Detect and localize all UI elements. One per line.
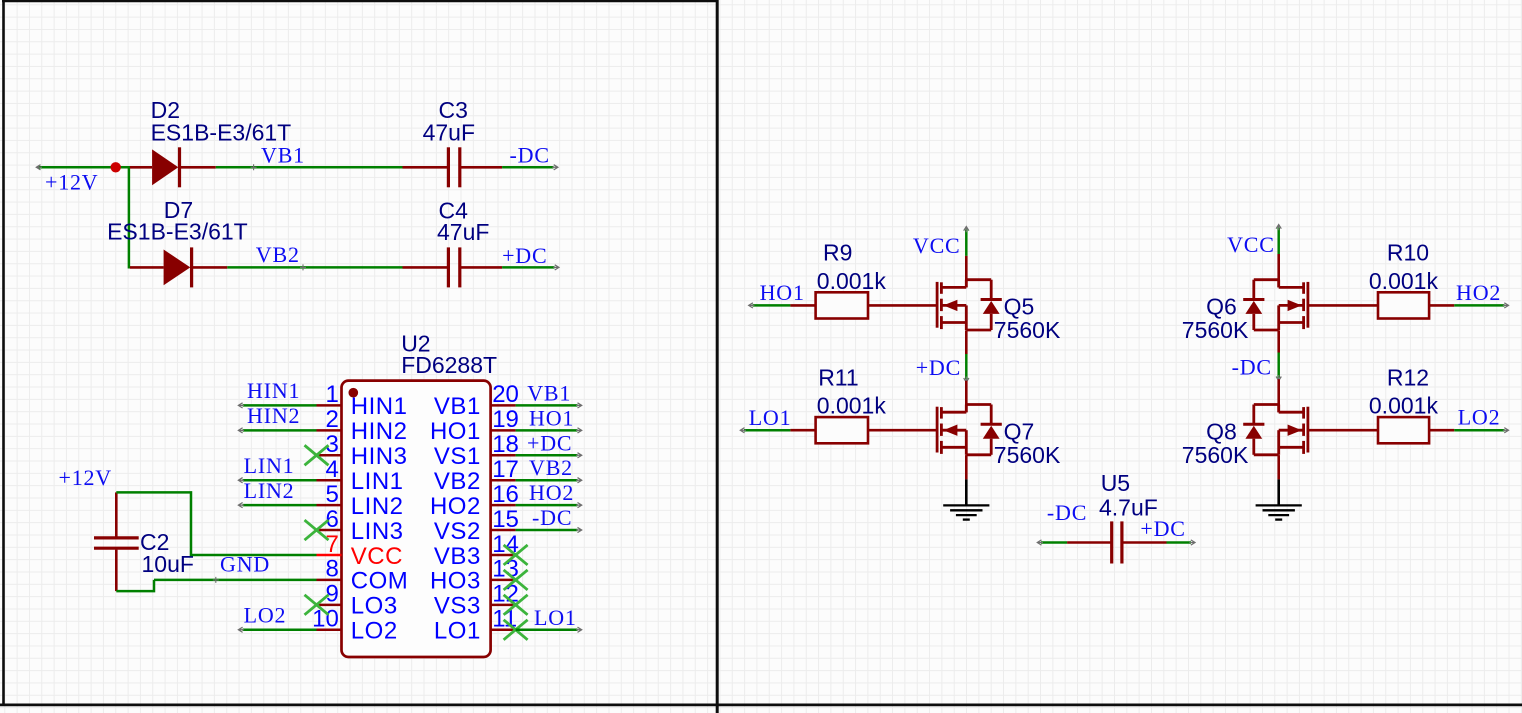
- svg-text:HIN1: HIN1: [351, 393, 408, 420]
- svg-text:HO2: HO2: [430, 493, 481, 520]
- wire net LO2 (right): [1454, 429, 1504, 432]
- svg-text:47uF: 47uF: [437, 219, 489, 245]
- svg-text:VCC: VCC: [1227, 232, 1275, 257]
- wire net HO1 (U2 pin 19): [516, 429, 578, 432]
- svg-text:7560K: 7560K: [994, 442, 1061, 468]
- U2 pin 2 (HIN2) stub: [317, 429, 342, 432]
- transistor Q7 (NMOS): [936, 407, 939, 453]
- svg-text:0.001k: 0.001k: [817, 393, 887, 419]
- power flag VCC (right): [1277, 228, 1280, 255]
- svg-text:Q5: Q5: [1004, 294, 1035, 320]
- wire net +DC (C4 right): [502, 266, 554, 269]
- wire net HIN1: [243, 404, 317, 407]
- svg-text:VB2: VB2: [529, 455, 573, 480]
- svg-text:VCC: VCC: [913, 233, 961, 258]
- svg-text:VB2: VB2: [256, 242, 300, 267]
- svg-text:R10: R10: [1387, 240, 1429, 266]
- no-connect X U2 pin 11: [504, 620, 528, 640]
- IC U2 FD6288T body: [342, 381, 491, 657]
- svg-text:4: 4: [325, 456, 338, 483]
- svg-text:17: 17: [492, 456, 519, 483]
- svg-text:+DC: +DC: [527, 430, 572, 455]
- wire C2 bottom to GND net: [116, 580, 154, 591]
- svg-text:VB1: VB1: [261, 142, 305, 167]
- svg-text:0.001k: 0.001k: [817, 268, 887, 294]
- svg-text:HIN1: HIN1: [247, 378, 300, 403]
- svg-text:+DC: +DC: [916, 355, 961, 380]
- transistor Q8 (NMOS, mirrored): [1307, 407, 1310, 453]
- svg-text:VB2: VB2: [434, 468, 481, 495]
- wire net HIN2: [243, 429, 317, 432]
- svg-text:ES1B-E3/61T: ES1B-E3/61T: [107, 219, 248, 245]
- wire Q6 drain: [1277, 254, 1280, 287]
- wire net -DC (U2 pin 15): [516, 529, 578, 532]
- junction dot +12V node: [111, 162, 121, 172]
- wire +12V branch down to D7: [128, 166, 131, 268]
- svg-text:VB1: VB1: [434, 393, 481, 420]
- U2 pin 10 (LO2) stub: [317, 629, 342, 632]
- svg-text:HO1: HO1: [430, 418, 481, 445]
- wire Q8 source to ground: [1277, 455, 1280, 479]
- svg-text:7560K: 7560K: [1182, 317, 1249, 343]
- wire joint marker VB1: [251, 164, 257, 170]
- svg-text:8: 8: [325, 556, 338, 583]
- svg-text:VS3: VS3: [434, 593, 481, 620]
- wire Q5 source to +DC node: [965, 330, 968, 354]
- capacitor C3: [403, 166, 449, 169]
- svg-text:LIN2: LIN2: [351, 493, 404, 520]
- wire Q7 source to ground: [965, 455, 968, 479]
- U2 pin 3 (HIN3) stub: [317, 454, 342, 457]
- resistor R10: [1308, 304, 1378, 307]
- svg-text:HIN2: HIN2: [247, 403, 300, 428]
- U2 pin 5 (LIN2) stub: [317, 504, 342, 507]
- svg-text:0.001k: 0.001k: [1369, 393, 1439, 419]
- no-connect X U2 pin 6: [305, 520, 329, 540]
- svg-text:7560K: 7560K: [994, 317, 1061, 343]
- U2 pin 17 (VB2) stub: [491, 479, 516, 482]
- svg-text:+12V: +12V: [45, 170, 99, 195]
- svg-text:VS2: VS2: [434, 518, 481, 545]
- svg-text:15: 15: [492, 506, 519, 533]
- svg-text:Q6: Q6: [1206, 294, 1237, 320]
- no-connect X U2 pin 14: [504, 545, 528, 565]
- U2 pin 16 (HO2) stub: [491, 504, 516, 507]
- svg-text:U5: U5: [1101, 470, 1130, 496]
- svg-text:Q8: Q8: [1206, 418, 1237, 444]
- svg-text:19: 19: [492, 406, 519, 433]
- svg-text:HIN3: HIN3: [351, 443, 408, 470]
- diode D2: [130, 166, 152, 169]
- wire C2 top to U2 VCC pin 7: [116, 492, 316, 555]
- wire net HO2 (U2 pin 16): [516, 504, 578, 507]
- wire net LIN1: [243, 479, 317, 482]
- wire net LO2 (U2 pin 10): [243, 629, 317, 632]
- U2 pin 9 (LO3) stub: [317, 604, 342, 607]
- svg-text:VB3: VB3: [434, 543, 481, 570]
- svg-text:LO3: LO3: [351, 593, 398, 620]
- wire net -DC to U5: [1041, 541, 1067, 544]
- wire net HO2: [1454, 304, 1504, 307]
- svg-text:LO2: LO2: [1458, 405, 1501, 430]
- svg-text:16: 16: [492, 481, 519, 508]
- svg-text:20: 20: [492, 381, 519, 408]
- svg-text:HO2: HO2: [1456, 280, 1501, 305]
- svg-text:R9: R9: [823, 240, 852, 266]
- transistor Q5 (NMOS): [936, 282, 939, 328]
- svg-text:+DC: +DC: [502, 243, 547, 268]
- U2 pin 19 (HO1) stub: [491, 429, 516, 432]
- svg-text:LO1: LO1: [749, 405, 792, 430]
- svg-text:LO1: LO1: [534, 605, 577, 630]
- wire Q8 drain: [1277, 379, 1280, 412]
- svg-text:LIN3: LIN3: [351, 518, 404, 545]
- wire net LO1 (U2 pin 11): [516, 629, 578, 632]
- capacitor U5: [1067, 541, 1111, 544]
- wire Q7 drain: [965, 381, 968, 413]
- svg-text:GND: GND: [220, 552, 270, 577]
- svg-text:LO2: LO2: [351, 618, 398, 645]
- wire joint marker VB2: [300, 264, 306, 270]
- U2 pin 14 (VB3) stub: [491, 554, 516, 557]
- resistor R12: [1308, 429, 1378, 432]
- svg-text:5: 5: [325, 481, 338, 508]
- svg-text:10uF: 10uF: [142, 551, 194, 577]
- U2 pin 4 (LIN1) stub: [317, 479, 342, 482]
- pin-1 marker dot U2: [349, 388, 359, 398]
- wire net VB1: [216, 166, 403, 169]
- svg-text:47uF: 47uF: [423, 119, 475, 145]
- U2 pin 1 (HIN1) stub: [317, 404, 342, 407]
- svg-text:FD6288T: FD6288T: [401, 352, 497, 378]
- svg-text:7560K: 7560K: [1182, 442, 1249, 468]
- svg-text:18: 18: [492, 431, 519, 458]
- svg-text:Q7: Q7: [1004, 418, 1035, 444]
- svg-text:7: 7: [325, 531, 338, 558]
- wire net VB2 (U2 pin 17): [516, 479, 578, 482]
- svg-text:-DC: -DC: [1232, 355, 1272, 380]
- svg-text:HO1: HO1: [760, 280, 805, 305]
- no-connect X U2 pin 13: [504, 570, 528, 590]
- wire net -DC (C3 right): [502, 166, 553, 169]
- wire net +DC from U5: [1167, 541, 1192, 544]
- svg-text:R12: R12: [1387, 364, 1429, 390]
- ground symbol (left half-bridge): [965, 479, 968, 505]
- svg-text:VCC: VCC: [351, 543, 403, 570]
- wire net HO1: [753, 304, 791, 307]
- U2 pin 18 (VS1) stub: [491, 454, 516, 457]
- net segment -DC (mid rail right): [1277, 353, 1280, 378]
- power flag VCC (left): [965, 230, 968, 256]
- U2 pin 12 (VS3) stub: [491, 604, 516, 607]
- svg-text:HIN2: HIN2: [351, 418, 408, 445]
- svg-text:R11: R11: [818, 364, 859, 390]
- wire net VB1 (U2 pin 20): [516, 404, 578, 407]
- svg-text:-DC: -DC: [532, 505, 572, 530]
- svg-text:LO1: LO1: [434, 618, 481, 645]
- svg-text:1: 1: [325, 381, 338, 408]
- wire Q6 source to -DC node: [1277, 330, 1280, 352]
- resistor R11: [790, 429, 815, 432]
- svg-text:LIN1: LIN1: [244, 453, 295, 478]
- svg-text:HO3: HO3: [430, 568, 481, 595]
- svg-text:HO1: HO1: [529, 405, 574, 430]
- no-connect X U2 pin 9: [305, 595, 329, 615]
- transistor Q6 (NMOS, mirrored): [1307, 282, 1310, 328]
- U2 pin 13 (HO3) stub: [491, 579, 516, 582]
- svg-text:-DC: -DC: [1047, 500, 1087, 525]
- wire joint marker GND: [213, 577, 219, 583]
- U2 pin 8 (COM) stub: [317, 579, 342, 582]
- U2 pin 7 (VCC) stub: [317, 554, 342, 557]
- wire +12V net to D2 anode: [39, 166, 132, 169]
- wire net LO1 to R11: [744, 429, 790, 432]
- capacitor C2: [115, 492, 118, 536]
- svg-text:LO2: LO2: [244, 603, 287, 628]
- resistor R9: [790, 304, 815, 307]
- wire net VB2: [227, 266, 402, 269]
- svg-text:VB1: VB1: [527, 380, 571, 405]
- wire net LIN2: [243, 504, 317, 507]
- wire Q5 drain: [965, 256, 968, 288]
- net segment +DC (mid rail left): [965, 354, 968, 379]
- capacitor C4: [403, 266, 449, 269]
- svg-text:2: 2: [325, 406, 338, 433]
- no-connect X U2 pin 12: [504, 595, 528, 615]
- svg-text:HO2: HO2: [529, 480, 574, 505]
- U2 pin 15 (VS2) stub: [491, 529, 516, 532]
- svg-text:+12V: +12V: [59, 465, 113, 490]
- svg-text:0.001k: 0.001k: [1369, 268, 1439, 294]
- U2 pin 20 (VB1) stub: [491, 404, 516, 407]
- svg-text:LIN2: LIN2: [244, 478, 295, 503]
- wire net +DC (U2 pin 18): [516, 454, 578, 457]
- svg-text:+DC: +DC: [1140, 516, 1185, 541]
- ground symbol (right half-bridge): [1277, 479, 1280, 505]
- svg-text:LIN1: LIN1: [351, 468, 404, 495]
- wire net GND to U2 COM pin 8: [154, 579, 317, 582]
- U2 pin 6 (LIN3) stub: [317, 529, 342, 532]
- diode D7: [130, 266, 164, 269]
- U2 pin 11 (LO1) stub: [491, 629, 516, 632]
- no-connect X U2 pin 3: [305, 445, 329, 465]
- svg-text:COM: COM: [351, 568, 409, 595]
- svg-text:VS1: VS1: [434, 443, 481, 470]
- svg-text:-DC: -DC: [510, 143, 550, 168]
